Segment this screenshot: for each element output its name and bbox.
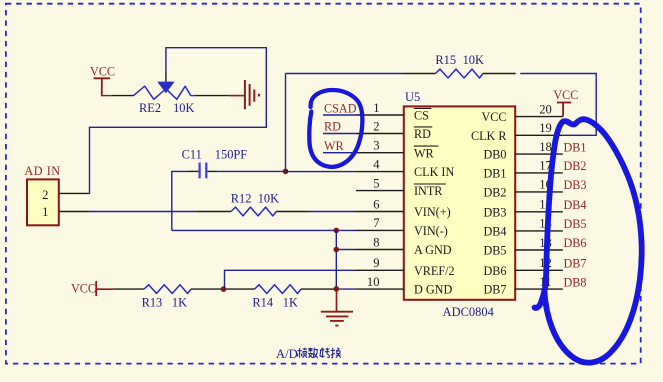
svg-text:AD IN: AD IN xyxy=(24,164,60,178)
svg-text:18: 18 xyxy=(539,140,552,154)
pin 4 (CLK IN) xyxy=(356,171,404,173)
pin 17 (DB1) xyxy=(515,172,563,174)
svg-text:1K: 1K xyxy=(283,295,298,309)
ground (below D GND row) xyxy=(336,289,338,311)
wire CS net xyxy=(323,114,356,116)
svg-text:7: 7 xyxy=(373,216,379,230)
svg-text:4: 4 xyxy=(373,157,380,171)
svg-text:DB5: DB5 xyxy=(483,244,506,258)
svg-text:10K: 10K xyxy=(258,192,279,206)
svg-text:1K: 1K xyxy=(172,295,187,309)
wire R15 right to CLK R pin 19 xyxy=(483,73,516,75)
svg-text:8: 8 xyxy=(373,235,379,249)
svg-text:C11: C11 xyxy=(182,148,202,162)
svg-text:RD: RD xyxy=(414,127,431,141)
wire junction to CLK IN pin 4 xyxy=(286,171,356,173)
wire AD IN pin1 to R12 xyxy=(90,211,197,213)
svg-text:DB6: DB6 xyxy=(483,264,506,278)
pin 8 (A GND) xyxy=(356,249,404,251)
svg-text:A GND: A GND xyxy=(414,243,452,257)
svg-text:10: 10 xyxy=(367,275,380,289)
svg-text:VREF/2: VREF/2 xyxy=(414,264,455,278)
svg-text:VIN(+): VIN(+) xyxy=(414,205,451,219)
wire C11 right to CLK IN node xyxy=(208,170,218,172)
pin 6 (VIN(+)) xyxy=(356,211,404,213)
svg-text:DB4: DB4 xyxy=(483,225,506,239)
svg-text:DB8: DB8 xyxy=(564,275,587,289)
pin 16 (DB2) xyxy=(515,191,563,193)
svg-text:2: 2 xyxy=(42,188,48,202)
resistor R13 xyxy=(144,285,191,294)
ground (rotated, right of RE2) xyxy=(244,80,246,109)
svg-text:VCC: VCC xyxy=(553,88,578,102)
svg-text:RD: RD xyxy=(324,120,341,134)
svg-text:1: 1 xyxy=(373,101,379,115)
resistor RE2 (potentiometer) xyxy=(133,86,191,99)
annotation scribble ellipse (DB bus) xyxy=(535,119,642,362)
pin 5 (INTR) xyxy=(356,190,404,192)
svg-text:2: 2 xyxy=(373,119,379,133)
wire VCC to R13 xyxy=(113,288,144,290)
svg-text:CSAD: CSAD xyxy=(324,101,357,115)
pin 10 (D GND) xyxy=(356,288,404,290)
wire R13 to R14 xyxy=(191,288,255,290)
svg-text:WR: WR xyxy=(324,139,345,153)
pin 15 (DB3) xyxy=(515,211,563,213)
CJK 换 xyxy=(331,348,341,358)
connector AD IN xyxy=(27,179,59,225)
wire WR net xyxy=(323,152,356,154)
pin 7 (VIN(-)) xyxy=(356,229,404,231)
svg-text:R12: R12 xyxy=(231,192,252,206)
pin 12 (DB6) xyxy=(515,269,563,271)
svg-text:10K: 10K xyxy=(463,53,484,67)
svg-text:DB6: DB6 xyxy=(564,236,587,250)
wire VREF/2 row xyxy=(225,270,356,289)
svg-text:6: 6 xyxy=(373,197,379,211)
wire ground vertical xyxy=(335,230,337,289)
svg-text:DB3: DB3 xyxy=(483,205,506,219)
svg-text:A/D: A/D xyxy=(276,347,298,361)
wire A GND row xyxy=(336,249,356,251)
annotation scribble circle (CSAD/RD/WR) xyxy=(309,90,362,167)
svg-text:DB2: DB2 xyxy=(564,159,587,173)
svg-text:R15: R15 xyxy=(435,53,456,67)
svg-text:INTR: INTR xyxy=(414,184,443,198)
RE2 wiper arrow xyxy=(157,82,174,94)
svg-text:DB7: DB7 xyxy=(564,257,587,271)
svg-text:CLK IN: CLK IN xyxy=(414,165,454,179)
svg-text:VCC: VCC xyxy=(71,282,96,296)
node ground junction xyxy=(334,286,340,292)
wire junction up to R15 loop xyxy=(285,74,287,172)
resistor R14 xyxy=(255,285,302,294)
svg-text:DB1: DB1 xyxy=(564,140,587,154)
node VIN(-) junction xyxy=(334,228,340,234)
svg-text:VIN(-): VIN(-) xyxy=(414,224,448,238)
svg-text:150PF: 150PF xyxy=(215,148,247,162)
svg-text:VCC: VCC xyxy=(90,64,115,78)
svg-text:20: 20 xyxy=(539,102,552,116)
wire R14 to D GND xyxy=(301,288,336,290)
pin 2 (RD) xyxy=(356,133,404,135)
pin 19 (CLK R) xyxy=(515,134,563,136)
node CLK IN junction xyxy=(283,169,289,175)
svg-text:DB1: DB1 xyxy=(483,167,506,181)
svg-text:DB0: DB0 xyxy=(483,148,506,162)
pin 3 (WR) xyxy=(356,152,404,154)
svg-text:9: 9 xyxy=(373,256,379,270)
svg-text:DB7: DB7 xyxy=(483,283,506,297)
wire top loop left xyxy=(286,73,403,75)
svg-text:DB4: DB4 xyxy=(564,198,587,212)
pin 20 (VCC) xyxy=(515,116,563,118)
svg-text:3: 3 xyxy=(373,139,379,153)
svg-text:10K: 10K xyxy=(173,101,194,115)
svg-text:DB3: DB3 xyxy=(564,178,587,192)
CJK 模 xyxy=(297,348,307,358)
pin 11 (DB7) xyxy=(515,288,563,290)
svg-text:DB2: DB2 xyxy=(483,186,506,200)
op-amp/IC U5 body xyxy=(404,106,515,299)
pin 13 (DB5) xyxy=(515,249,563,251)
node VREF junction xyxy=(221,286,227,292)
svg-text:DB5: DB5 xyxy=(564,217,587,231)
wire VCC to RE2 xyxy=(101,95,112,97)
svg-text:CLK R: CLK R xyxy=(471,129,507,143)
svg-text:VCC: VCC xyxy=(481,110,506,124)
wire RD net xyxy=(323,133,356,135)
svg-text:5: 5 xyxy=(373,176,379,190)
pin 9 (VREF/2) xyxy=(356,269,404,271)
resistor R12 xyxy=(231,207,276,216)
wire RE2 wiper stem xyxy=(165,72,167,82)
pin 18 (DB0) xyxy=(515,153,563,155)
pin 14 (DB4) xyxy=(515,230,563,232)
svg-text:19: 19 xyxy=(539,121,552,135)
svg-text:RE2: RE2 xyxy=(139,101,161,115)
wire VIN(-) row xyxy=(172,229,356,231)
CJK 转 xyxy=(320,348,330,358)
svg-text:D GND: D GND xyxy=(414,283,452,297)
svg-text:WR: WR xyxy=(414,146,435,160)
svg-text:R13: R13 xyxy=(142,295,163,309)
wire RE2 right lead xyxy=(191,95,195,97)
pin 1 (CS) xyxy=(356,114,404,116)
svg-text:U5: U5 xyxy=(405,90,420,104)
resistor R15 xyxy=(435,69,483,78)
svg-text:ADC0804: ADC0804 xyxy=(443,305,494,319)
wire R12 to VIN(+) xyxy=(276,211,310,213)
svg-text:CS: CS xyxy=(414,109,429,123)
wire wiper loop to AD IN pin 2 xyxy=(88,48,266,194)
node A GND junction xyxy=(334,247,340,253)
svg-text:1: 1 xyxy=(42,205,48,219)
wire C11 left to VIN(-) net xyxy=(172,171,189,230)
CJK 数 xyxy=(308,348,318,358)
svg-text:R14: R14 xyxy=(252,295,273,309)
